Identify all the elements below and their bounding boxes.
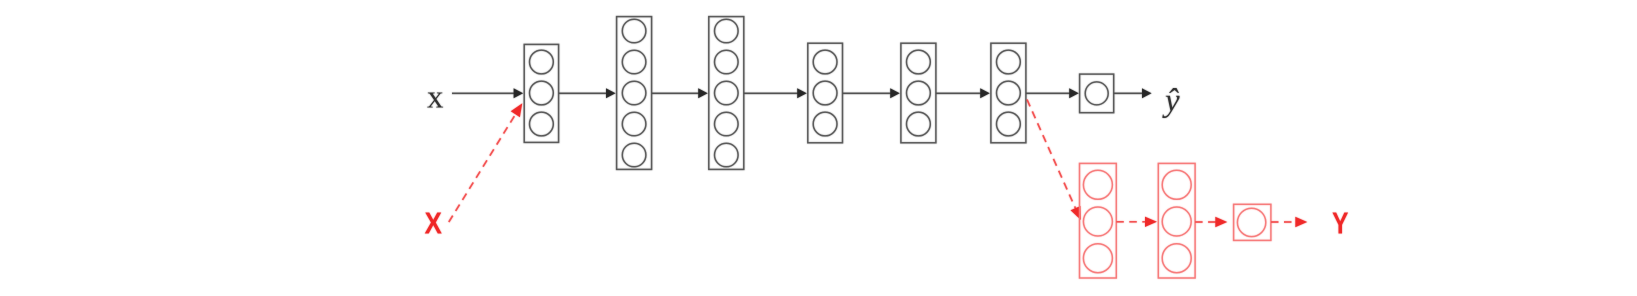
red dashed arrow layer A to layer B xyxy=(1116,217,1157,227)
layer L3 box (5 neurons) xyxy=(709,17,744,170)
wire arrow output to y-hat xyxy=(1114,88,1152,98)
svg-text:x: x xyxy=(427,80,444,116)
wire arrow x to layer L1 xyxy=(452,88,523,98)
red layer B box (3 neurons) xyxy=(1158,163,1195,278)
svg-text:ŷ: ŷ xyxy=(1162,83,1180,119)
layer L6 box (3 neurons) xyxy=(991,43,1026,143)
wire arrow L3 to L4 xyxy=(744,88,807,98)
red dashed arrow X to layer L1 xyxy=(449,103,523,222)
wire arrow L4 to L5 xyxy=(843,88,900,98)
layer L2 box (5 neurons) xyxy=(617,17,652,170)
svg-text:Y: Y xyxy=(1332,206,1349,241)
layer L5 box (3 neurons) xyxy=(901,43,936,143)
layer L4 box (3 neurons) xyxy=(808,43,843,143)
output unit box (1 neuron) xyxy=(1080,74,1114,113)
red dashed arrow L6 to red layer A xyxy=(1027,100,1081,221)
wire arrow L2 to L3 xyxy=(652,88,708,98)
red dashed arrow layer B to red output unit xyxy=(1195,217,1227,227)
layer L1 box (3 neurons) xyxy=(524,44,558,142)
red layer A box (3 neurons) xyxy=(1080,163,1117,278)
wire arrow L6 to output unit xyxy=(1026,88,1079,98)
red output unit box (1 neuron) xyxy=(1234,204,1271,240)
svg-text:X: X xyxy=(425,206,443,241)
red dashed arrow red output to Y xyxy=(1271,217,1307,227)
wire arrow L5 to L6 xyxy=(936,88,990,98)
wire arrow L1 to L2 xyxy=(559,88,616,98)
